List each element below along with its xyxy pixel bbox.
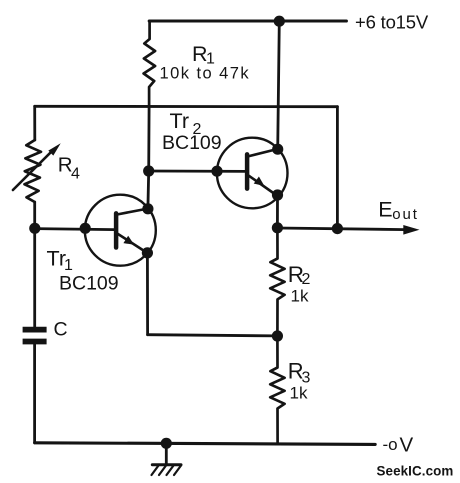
- wire R1 bottom to Tr2 base node: [147, 107, 150, 172]
- wire horizontal feedback (R4 top to output drop): [35, 105, 338, 108]
- wire Tr1 emitter down: [146, 253, 149, 335]
- svg-text:1k: 1k: [291, 287, 309, 306]
- resistor R1: [144, 21, 156, 107]
- label Tr1: [47, 247, 74, 275]
- node Tr1 base dot: [80, 223, 91, 234]
- node output drop junction: [332, 223, 343, 234]
- resistor R3: [270, 336, 284, 444]
- resistor R2: [270, 228, 284, 336]
- svg-text:1: 1: [64, 257, 73, 274]
- label -0V: [383, 434, 414, 457]
- svg-text:C: C: [54, 319, 68, 341]
- label R4: [58, 154, 80, 183]
- label R2: [288, 262, 311, 288]
- wire left rail lower (C to 0V rail): [33, 344, 36, 442]
- wire left rail middle (R4 to C): [33, 202, 36, 327]
- transistor Tr2 BC109: [217, 138, 288, 209]
- node Tr1 emitter dot: [142, 247, 153, 258]
- node Tr2 base dot: [211, 166, 222, 177]
- wire emitter feedback horizontal: [148, 335, 278, 336]
- wire Tr2 base: [149, 170, 246, 173]
- svg-text:V: V: [400, 434, 414, 457]
- svg-text:1k: 1k: [290, 384, 308, 403]
- node Tr1 collector / Tr2 base junction: [143, 165, 154, 176]
- svg-text:10k to 47k: 10k to 47k: [160, 64, 251, 82]
- node R2 R3 junction: [272, 330, 283, 341]
- svg-text:-o: -o: [383, 435, 398, 454]
- wire Tr2 collector to top rail: [278, 21, 280, 149]
- wire bottom 0V rail: [35, 443, 376, 445]
- node Tr1 base junction: [29, 223, 40, 234]
- wire top supply rail: [149, 19, 346, 22]
- node ground junction: [161, 438, 172, 449]
- svg-text:out: out: [392, 206, 419, 223]
- capacitor C: [23, 330, 47, 342]
- node top rail / Tr2 collector junction: [274, 16, 285, 27]
- svg-text:E: E: [378, 197, 392, 221]
- node Tr1 collector dot: [142, 203, 153, 214]
- svg-text:Tr: Tr: [170, 109, 190, 133]
- svg-text:4: 4: [71, 166, 80, 183]
- label Tr2: [170, 109, 202, 138]
- wire output line: [277, 228, 405, 230]
- wire Tr1 base: [35, 229, 114, 230]
- svg-text:SeekIC.com: SeekIC.com: [377, 464, 454, 479]
- wire left rail upper: [33, 106, 36, 140]
- svg-text:2: 2: [302, 271, 311, 288]
- wire junction to Tr1 collector: [146, 171, 150, 209]
- arrow of variable resistor R4: [13, 151, 53, 190]
- svg-text:BC109: BC109: [162, 132, 222, 154]
- svg-text:+6 to15V: +6 to15V: [355, 12, 429, 33]
- svg-text:BC109: BC109: [59, 273, 119, 295]
- node Tr2 collector dot: [272, 144, 283, 155]
- transistor Tr1 BC109: [85, 195, 156, 266]
- arrow output: [403, 225, 419, 235]
- ground: [152, 443, 182, 475]
- resistor R4 (variable): [25, 140, 42, 202]
- wire vertical drop to output node: [336, 107, 339, 229]
- label R1: [192, 42, 215, 68]
- wire Tr2 emitter to output node: [276, 195, 279, 228]
- node output Eout: [272, 222, 283, 233]
- node Tr2 emitter dot: [272, 189, 283, 200]
- label R3: [288, 359, 311, 387]
- label Eout: [378, 197, 419, 223]
